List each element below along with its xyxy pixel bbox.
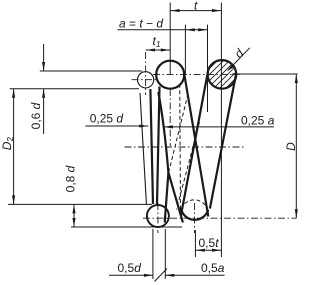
svg-text:0,5a: 0,5a (201, 261, 225, 275)
svg-text:0,5t: 0,5t (199, 236, 220, 250)
svg-text:a = t − d: a = t − d (119, 17, 163, 31)
svg-text:0,8 d: 0,8 d (64, 165, 78, 192)
svg-text:0,25 a: 0,25 a (241, 114, 275, 128)
svg-text:0,25 d: 0,25 d (90, 112, 124, 126)
svg-text:0,5d: 0,5d (118, 261, 142, 275)
svg-text:0,6 d: 0,6 d (29, 102, 43, 129)
svg-text:D: D (284, 142, 298, 151)
